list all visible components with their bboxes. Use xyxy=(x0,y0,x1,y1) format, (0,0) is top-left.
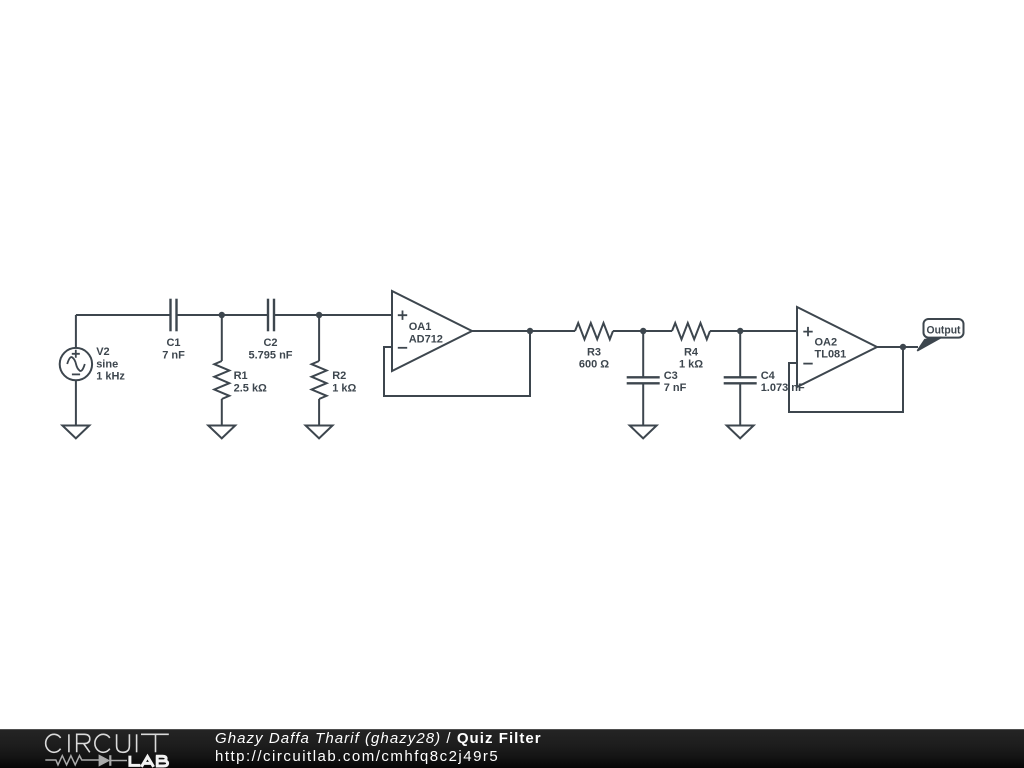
output flag tail xyxy=(917,337,941,351)
svg-text:1 kΩ: 1 kΩ xyxy=(679,359,703,371)
ground (under R1) xyxy=(208,426,235,439)
svg-text:AD712: AD712 xyxy=(409,333,443,345)
C1 label xyxy=(162,337,185,361)
C3 label xyxy=(664,370,687,394)
ground (under V2) xyxy=(62,426,89,439)
node A xyxy=(219,312,225,318)
wire OA2 feedback loop xyxy=(789,347,903,412)
svg-text:V2: V2 xyxy=(96,346,109,358)
svg-text:R2: R2 xyxy=(332,370,346,382)
OA1 label xyxy=(409,321,443,345)
svg-text:C2: C2 xyxy=(263,337,277,349)
node D xyxy=(640,328,646,334)
svg-text:2.5 kΩ: 2.5 kΩ xyxy=(234,382,267,394)
svg-text:7 nF: 7 nF xyxy=(162,349,185,361)
svg-text:1 kHz: 1 kHz xyxy=(96,371,125,383)
R4 label xyxy=(679,346,703,370)
op-amp OA1 xyxy=(392,291,472,371)
svg-text:sine: sine xyxy=(96,358,118,370)
svg-text:C4: C4 xyxy=(761,370,776,382)
logo word LAB (drawn letters) xyxy=(128,756,167,767)
R3 label xyxy=(579,346,609,370)
svg-text:Output: Output xyxy=(927,325,961,337)
output flag box xyxy=(924,319,964,338)
logo word CIRCUIT (drawn letters) xyxy=(46,734,169,752)
wire R3 to R4 xyxy=(613,330,672,332)
op-amp OA2 xyxy=(797,307,877,387)
voltage source V2 xyxy=(60,348,92,380)
C2 label xyxy=(248,337,292,361)
svg-text:R1: R1 xyxy=(234,370,248,382)
wire C1 to C2 xyxy=(177,314,269,316)
capacitor C3 xyxy=(627,331,660,426)
svg-text:OA2: OA2 xyxy=(815,336,838,348)
R2 label xyxy=(332,370,356,394)
svg-text:5.795 nF: 5.795 nF xyxy=(248,349,292,361)
ground (under C4) xyxy=(727,426,754,439)
wire C2 to op-amp xyxy=(274,314,392,316)
node F xyxy=(900,344,906,350)
C4 label xyxy=(761,370,805,394)
node B xyxy=(316,312,322,318)
capacitor C2 xyxy=(268,299,274,332)
CircuitLab logo xyxy=(0,730,200,768)
svg-text:1 kΩ: 1 kΩ xyxy=(332,382,356,394)
svg-text:TL081: TL081 xyxy=(815,349,847,361)
svg-text:1.073 nF: 1.073 nF xyxy=(761,382,805,394)
svg-text:7 nF: 7 nF xyxy=(664,382,687,394)
R1 label xyxy=(234,370,267,394)
wire V2 bottom to ground xyxy=(75,380,77,425)
wire OA2 output xyxy=(877,346,918,348)
resistor R2 xyxy=(312,315,327,426)
ground (under C3) xyxy=(630,426,657,439)
wire OA1 feedback loop xyxy=(384,331,530,396)
svg-text:600 Ω: 600 Ω xyxy=(579,359,609,371)
wire R4 to OA2 xyxy=(710,330,797,332)
svg-text:C1: C1 xyxy=(166,337,180,349)
wire V2 top to main rail xyxy=(75,315,77,348)
logo resistor symbol xyxy=(45,756,99,765)
svg-text:C3: C3 xyxy=(664,370,678,382)
resistor R3 xyxy=(575,323,613,339)
ground (under R2) xyxy=(306,426,333,439)
resistor R4 xyxy=(672,323,710,339)
resistor R1 xyxy=(214,315,229,426)
attribution text xyxy=(214,729,216,731)
logo diode symbol xyxy=(99,755,127,766)
bottom info bar xyxy=(0,729,1024,768)
V2 label xyxy=(96,346,125,383)
wire OA1 output xyxy=(472,330,575,332)
capacitor C1 xyxy=(171,299,177,332)
node C xyxy=(527,328,533,334)
capacitor C4 xyxy=(724,331,757,426)
svg-text:OA1: OA1 xyxy=(409,321,432,333)
svg-text:R3: R3 xyxy=(587,346,601,358)
wire main rail left segment xyxy=(76,314,171,316)
svg-text:R4: R4 xyxy=(684,346,699,358)
OA2 label xyxy=(815,336,847,360)
node E xyxy=(737,328,743,334)
